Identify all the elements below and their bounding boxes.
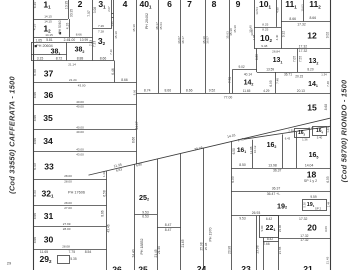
svg-text:8.66: 8.66 (33, 138, 37, 145)
svg-text:29: 29 (7, 261, 12, 266)
svg-text:14.15: 14.15 (45, 33, 53, 37)
svg-text:8.66: 8.66 (76, 33, 82, 37)
svg-text:1.44: 1.44 (102, 171, 106, 177)
svg-text:33: 33 (44, 162, 54, 172)
svg-text:8.47: 8.47 (165, 223, 172, 227)
svg-text:1.98: 1.98 (252, 34, 256, 40)
svg-text:8: 8 (212, 0, 217, 9)
svg-text:11.65: 11.65 (243, 89, 251, 93)
svg-text:40.00: 40.00 (76, 100, 84, 104)
svg-text:5.30: 5.30 (303, 202, 307, 208)
svg-text:8.74: 8.74 (144, 88, 151, 92)
svg-text:1.44: 1.44 (326, 201, 330, 207)
svg-text:4.10: 4.10 (66, 23, 70, 30)
svg-text:28.00: 28.00 (64, 180, 72, 184)
svg-text:8.66: 8.66 (33, 115, 37, 122)
svg-text:4.10: 4.10 (33, 24, 37, 31)
svg-text:24: 24 (197, 264, 207, 270)
svg-text:36.37: 36.37 (272, 187, 281, 191)
svg-text:77.00: 77.00 (224, 96, 233, 100)
svg-text:35.30: 35.30 (132, 24, 136, 32)
svg-text:7.07: 7.07 (87, 10, 91, 17)
svg-text:8.66: 8.66 (33, 92, 37, 99)
svg-text:27.00: 27.00 (64, 206, 72, 210)
svg-text:SP 1 y 2: SP 1 y 2 (304, 179, 317, 183)
svg-text:17.32: 17.32 (299, 217, 308, 221)
svg-text:6.50: 6.50 (232, 148, 236, 154)
svg-text:4: 4 (123, 0, 128, 9)
svg-text:8.50: 8.50 (239, 163, 246, 167)
svg-text:13.98: 13.98 (268, 163, 277, 167)
svg-text:6.58: 6.58 (103, 190, 107, 196)
svg-text:PH 20604: PH 20604 (36, 44, 52, 48)
svg-text:7.48: 7.48 (275, 78, 279, 84)
svg-text:PH 20402: PH 20402 (145, 13, 149, 29)
svg-text:34: 34 (43, 136, 53, 146)
svg-text:9.53: 9.53 (142, 210, 149, 214)
svg-text:8.66: 8.66 (33, 213, 37, 220)
svg-text:36: 36 (44, 90, 54, 100)
svg-text:7.75: 7.75 (68, 250, 75, 254)
svg-text:PH 17606: PH 17606 (68, 191, 85, 195)
svg-text:7.26: 7.26 (98, 24, 104, 28)
svg-text:8.25: 8.25 (262, 22, 268, 26)
svg-text:26.84: 26.84 (272, 49, 280, 53)
svg-text:9.52: 9.52 (209, 88, 216, 92)
svg-text:6.53: 6.53 (142, 215, 149, 219)
svg-text:24.97: 24.97 (135, 121, 139, 129)
svg-text:2.15: 2.15 (308, 126, 314, 130)
svg-text:1.65: 1.65 (35, 38, 42, 42)
svg-text:35.30: 35.30 (233, 25, 237, 33)
svg-text:1.00: 1.00 (69, 38, 76, 42)
svg-text:31: 31 (44, 211, 54, 221)
svg-text:25.98: 25.98 (199, 242, 203, 250)
svg-text:28.00: 28.00 (64, 201, 72, 205)
svg-text:3.08: 3.08 (93, 7, 97, 14)
svg-text:40.00: 40.00 (76, 130, 84, 134)
svg-text:9.02: 9.02 (238, 65, 244, 69)
svg-text:43.00: 43.00 (78, 84, 86, 88)
svg-text:6.42: 6.42 (266, 217, 272, 221)
svg-text:27.99: 27.99 (63, 222, 71, 226)
svg-text:20.13: 20.13 (297, 89, 305, 93)
svg-text:15: 15 (307, 102, 317, 112)
svg-text:5.40: 5.40 (317, 136, 323, 140)
svg-text:8.66: 8.66 (289, 17, 296, 21)
svg-text:8.66: 8.66 (164, 88, 171, 92)
svg-text:(Cod 33550) CAFFERATA - 1500: (Cod 33550) CAFFERATA - 1500 (8, 75, 17, 193)
svg-text:20: 20 (307, 222, 317, 232)
svg-text:8.68: 8.68 (324, 104, 328, 111)
svg-text:7.48: 7.48 (326, 81, 330, 87)
svg-text:7: 7 (187, 0, 192, 9)
svg-text:6.95: 6.95 (269, 80, 273, 86)
svg-text:7.05: 7.05 (292, 56, 296, 62)
svg-text:21.14: 21.14 (68, 63, 76, 67)
svg-text:7.55: 7.55 (299, 56, 303, 62)
svg-text:14.15: 14.15 (44, 20, 52, 24)
svg-text:9.59: 9.59 (310, 195, 316, 199)
svg-text:43.46: 43.46 (106, 224, 110, 232)
svg-text:35: 35 (43, 113, 53, 123)
svg-text:6.53: 6.53 (231, 176, 235, 182)
svg-text:36.07: 36.07 (206, 36, 210, 44)
svg-text:9.53: 9.53 (239, 216, 245, 220)
svg-text:10.03: 10.03 (300, 4, 304, 11)
svg-text:30: 30 (44, 235, 54, 245)
svg-text:6.40: 6.40 (33, 2, 37, 9)
svg-text:20.15: 20.15 (295, 75, 303, 79)
svg-text:6.40: 6.40 (33, 163, 37, 170)
svg-text:3.15: 3.15 (37, 57, 44, 61)
svg-text:26.93: 26.93 (252, 211, 261, 215)
svg-text:23.98: 23.98 (255, 245, 259, 253)
svg-text:21: 21 (303, 264, 313, 270)
svg-text:36.71: 36.71 (284, 73, 292, 77)
svg-text:23.06: 23.06 (278, 224, 282, 232)
svg-text:38.17: 38.17 (181, 36, 185, 44)
svg-text:6.46: 6.46 (111, 68, 115, 75)
svg-text:8.66: 8.66 (33, 237, 37, 244)
svg-text:13.54: 13.54 (255, 7, 259, 15)
svg-text:8.66: 8.66 (101, 210, 105, 216)
svg-text:43.00: 43.00 (76, 147, 84, 151)
svg-text:21.40: 21.40 (157, 246, 161, 254)
svg-text:PH 1970: PH 1970 (208, 228, 212, 242)
svg-text:43.00: 43.00 (76, 152, 84, 156)
svg-text:28.00: 28.00 (63, 227, 71, 231)
svg-text:8.20: 8.20 (307, 68, 313, 72)
svg-text:8.66: 8.66 (186, 88, 193, 92)
svg-text:28.00: 28.00 (64, 174, 72, 178)
svg-text:8.66: 8.66 (132, 137, 136, 143)
svg-text:40.14: 40.14 (244, 72, 252, 76)
svg-text:5.35: 5.35 (70, 257, 76, 261)
svg-text:25: 25 (138, 264, 148, 270)
svg-text:5.81: 5.81 (46, 38, 53, 42)
svg-text:17.32: 17.32 (300, 238, 308, 242)
svg-text:8.88: 8.88 (77, 57, 84, 61)
svg-text:24.40: 24.40 (132, 249, 136, 257)
svg-text:9.06: 9.06 (132, 89, 136, 95)
svg-text:21.65: 21.65 (181, 239, 185, 247)
svg-text:11.65: 11.65 (40, 250, 48, 254)
svg-text:2.07: 2.07 (107, 6, 111, 12)
svg-text:6.53: 6.53 (326, 176, 330, 182)
svg-text:17.32: 17.32 (299, 49, 308, 53)
svg-text:35.30: 35.30 (114, 31, 118, 39)
svg-text:9: 9 (236, 0, 241, 9)
svg-text:8.54: 8.54 (85, 250, 92, 254)
svg-text:9.00: 9.00 (260, 225, 264, 231)
svg-text:9.33: 9.33 (33, 190, 37, 197)
svg-text:7.33: 7.33 (93, 41, 97, 47)
svg-text:7.66: 7.66 (263, 242, 269, 246)
svg-text:7.16: 7.16 (109, 49, 113, 55)
svg-text:1.30: 1.30 (288, 129, 294, 133)
svg-text:PH 18852: PH 18852 (140, 239, 144, 255)
svg-text:8.25: 8.25 (262, 28, 268, 32)
svg-text:6.85: 6.85 (255, 54, 259, 60)
svg-text:30.40: 30.40 (249, 25, 253, 33)
svg-text:37: 37 (44, 69, 54, 79)
svg-text:8.66: 8.66 (100, 57, 107, 61)
svg-text:1.35: 1.35 (110, 21, 114, 27)
svg-text:7.28: 7.28 (98, 30, 104, 34)
svg-text:21.24: 21.24 (69, 78, 77, 82)
svg-text:4.88: 4.88 (275, 7, 279, 13)
svg-text:8.66: 8.66 (121, 78, 128, 82)
svg-text:8.42: 8.42 (267, 237, 273, 241)
svg-text:14.04: 14.04 (305, 163, 314, 167)
svg-text:10.35: 10.35 (64, 1, 68, 9)
svg-text:17.32: 17.32 (299, 44, 308, 48)
svg-text:10.99: 10.99 (80, 38, 88, 42)
svg-text:35.63: 35.63 (159, 22, 163, 30)
svg-text:23.98: 23.98 (227, 246, 231, 254)
svg-text:2: 2 (78, 0, 83, 9)
svg-text:1.44: 1.44 (326, 127, 330, 133)
svg-text:36.47 +/-: 36.47 +/- (267, 192, 280, 196)
svg-text:SP 2: SP 2 (315, 206, 322, 210)
svg-text:1.36: 1.36 (302, 137, 308, 141)
svg-text:1.34: 1.34 (321, 72, 327, 76)
svg-text:8.72: 8.72 (56, 57, 63, 61)
svg-text:8.66: 8.66 (309, 16, 316, 20)
svg-text:17.32: 17.32 (297, 23, 306, 27)
svg-text:13.59: 13.59 (266, 67, 274, 71)
svg-text:6.43: 6.43 (285, 137, 291, 141)
svg-text:21.65: 21.65 (278, 246, 282, 254)
svg-text:4.29: 4.29 (263, 89, 269, 93)
svg-text:23: 23 (241, 264, 251, 270)
svg-text:14.15: 14.15 (44, 15, 52, 19)
svg-text:30.35: 30.35 (70, 9, 74, 17)
svg-text:9.32: 9.32 (281, 31, 285, 38)
svg-text:21.45: 21.45 (326, 256, 330, 264)
svg-text:25.98: 25.98 (204, 242, 208, 250)
svg-text:7.70: 7.70 (228, 77, 232, 83)
svg-text:8.47: 8.47 (165, 228, 172, 232)
svg-text:40.00: 40.00 (76, 125, 84, 129)
svg-text:4.40: 4.40 (275, 34, 279, 40)
svg-text:26: 26 (112, 264, 122, 270)
svg-text:6.00: 6.00 (33, 69, 37, 76)
svg-text:36.37: 36.37 (273, 169, 282, 173)
svg-text:9.48: 9.48 (261, 44, 267, 48)
svg-text:9.06: 9.06 (324, 226, 328, 232)
svg-text:9.02: 9.02 (326, 32, 330, 39)
svg-text:6: 6 (167, 0, 172, 9)
svg-text:28.08: 28.08 (62, 244, 70, 248)
svg-text:40.00: 40.00 (76, 105, 84, 109)
svg-text:PH 5060: PH 5060 (58, 20, 62, 33)
svg-text:10.12: 10.12 (253, 145, 257, 153)
svg-text:(Cod 58700) RIONDO - 1500: (Cod 58700) RIONDO - 1500 (340, 79, 349, 182)
svg-text:12: 12 (307, 31, 317, 41)
